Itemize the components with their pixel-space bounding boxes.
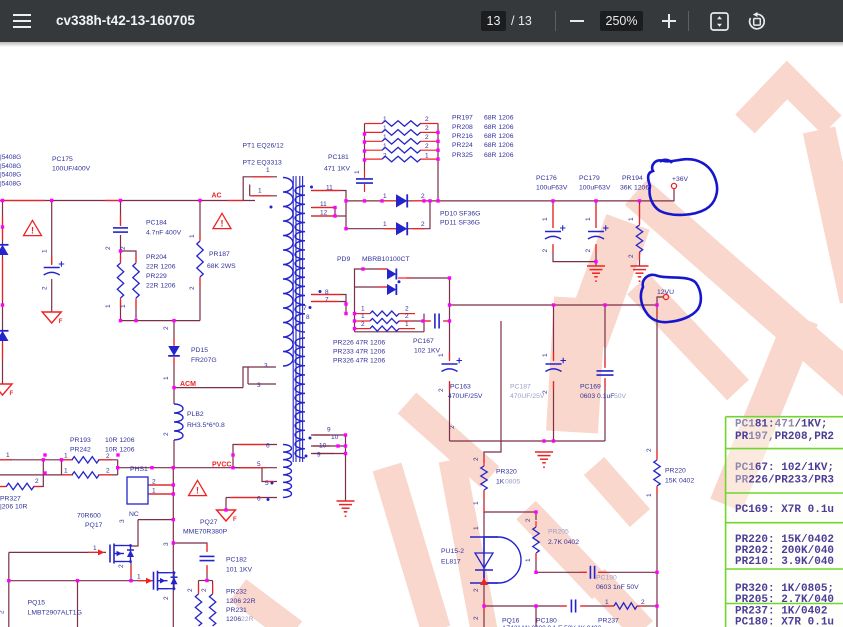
lead PR327 red: [0, 486, 41, 488]
pin number labels: [6, 116, 645, 606]
svg-text:68R 1206: 68R 1206: [484, 152, 514, 159]
wire 12VU rail: [450, 304, 658, 306]
resistor PR205: [533, 527, 539, 553]
svg-text:1: 1: [383, 134, 387, 141]
resistor PR325: [382, 156, 421, 162]
wire right rail 12V: [656, 305, 658, 459]
svg-text:NC: NC: [129, 511, 139, 518]
svg-text:RH3.5*6*0.8: RH3.5*6*0.8: [187, 422, 225, 429]
svg-text:6: 6: [257, 496, 261, 503]
wire trans right upper taps: [311, 191, 346, 229]
svg-text:2: 2: [421, 221, 425, 228]
junction sec dots: [336, 433, 347, 455]
svg-text:PC180: X7R 0.1u: PC180: X7R 0.1u: [735, 617, 834, 627]
diode PD9 lower: [387, 284, 396, 295]
svg-text:PR197,PR208,PR2: PR197,PR208,PR2: [735, 431, 834, 443]
wire PC187 lower: [553, 382, 555, 441]
wire PR205 bottom: [535, 554, 537, 572]
watermark stroke N: [638, 284, 738, 390]
svg-text:F: F: [10, 391, 14, 397]
svg-text:PR205: PR205: [548, 529, 569, 536]
resistor PR233: [370, 318, 399, 323]
wire right rail bottom: [656, 572, 658, 627]
svg-text:3: 3: [257, 382, 261, 389]
lead taps red: [312, 191, 340, 217]
svg-text:1: 1: [525, 558, 532, 562]
svg-text:PR205: 2.7K/040: PR205: 2.7K/040: [735, 594, 834, 606]
svg-text:2: 2: [473, 616, 480, 620]
wire resnet left bus: [364, 124, 366, 171]
wire PR327 up: [34, 460, 43, 487]
lead PR220 red: [656, 310, 658, 494]
watermark stroke A: [387, 467, 436, 627]
warning triangle NC: [189, 480, 207, 495]
svg-text:!: !: [196, 486, 199, 496]
svg-text:68K 2WS: 68K 2WS: [207, 263, 236, 270]
wire main rail lower: [172, 543, 174, 627]
wire tap7: [311, 301, 346, 303]
svg-text:|206 10R: |206 10R: [0, 504, 28, 511]
annotation circle +36V: [648, 159, 717, 215]
svg-text:2: 2: [120, 246, 127, 250]
lead PR204 red: [121, 255, 137, 263]
svg-text:1: 1: [425, 153, 429, 160]
svg-text:PC163: PC163: [450, 384, 471, 391]
svg-text:2: 2: [152, 479, 156, 486]
svg-text:PR204: PR204: [146, 254, 167, 261]
polarity dot tap6: [267, 498, 270, 501]
svg-text:MBRB10100CT: MBRB10100CT: [362, 256, 410, 263]
resistor PR197: [382, 121, 421, 127]
svg-text:PC187: PC187: [510, 384, 531, 391]
zoom level box: [600, 11, 643, 31]
wire PR320 junc down: [483, 512, 485, 537]
svg-text:PR197: PR197: [452, 115, 473, 122]
svg-text:2: 2: [106, 453, 110, 460]
svg-text:1: 1: [646, 493, 653, 497]
svg-text:AC: AC: [212, 193, 222, 200]
lead PHS1 red: [0, 459, 112, 461]
wire tap8: [311, 295, 346, 314]
svg-text:0603 0.1uF: 0603 0.1uF: [580, 393, 614, 400]
svg-text:70R600: 70R600: [77, 513, 101, 520]
wire PR232 top: [198, 581, 200, 594]
transformer primary winding lower: [283, 445, 292, 498]
svg-text:PR187: PR187: [209, 251, 230, 258]
svg-text:PC184: PC184: [146, 220, 167, 227]
lead AC red c: [105, 200, 122, 202]
svg-text:2.7K 0402: 2.7K 0402: [548, 539, 579, 546]
lead PC179 red: [595, 205, 597, 252]
svg-text:1: 1: [383, 143, 387, 150]
svg-text:1: 1: [438, 353, 445, 357]
svg-text:1206 22R: 1206 22R: [226, 598, 256, 605]
svg-text:9: 9: [327, 427, 331, 434]
wire 12VU stub: [657, 297, 663, 305]
svg-text:2: 2: [105, 246, 112, 250]
svg-text:9: 9: [317, 452, 321, 459]
optocoupler PU15-2: [470, 537, 521, 585]
svg-text:PR232: PR232: [226, 589, 247, 596]
svg-text:PR327: PR327: [0, 496, 21, 503]
wire pin1 lower stub: [250, 185, 277, 196]
wire PC190 row b: [599, 571, 657, 573]
wire PR220 lower: [656, 487, 658, 572]
resistor PR231: [209, 594, 215, 626]
capacitor PC187: [546, 358, 567, 372]
wire PC169 lower: [604, 379, 606, 441]
svg-text:MME70R380P: MME70R380P: [183, 529, 228, 536]
wire bottom rail a: [484, 605, 566, 607]
NC connector box: [127, 477, 148, 504]
resistor PR193: [72, 457, 99, 463]
wire resnet right bus: [437, 124, 439, 201]
zoom in button: [662, 14, 676, 28]
wire tap6 lower: [226, 497, 277, 499]
capacitor PC163: [442, 358, 463, 372]
svg-text:PR226 47R 1206: PR226 47R 1206: [333, 340, 385, 347]
svg-text:!: !: [221, 219, 224, 229]
svg-text:2: 2: [542, 390, 549, 394]
svg-text:68R 1206: 68R 1206: [484, 115, 514, 122]
lead PR204 red b: [121, 298, 137, 308]
ground secondary: [337, 501, 355, 517]
lead PR237 red: [607, 605, 645, 607]
lead PD15 red: [173, 338, 175, 365]
svg-text:PQ17: PQ17: [85, 522, 103, 529]
svg-text:3: 3: [264, 363, 268, 370]
svg-text:0805: 0805: [505, 479, 520, 486]
wire opto cath: [483, 572, 485, 606]
svg-text:1: 1: [542, 353, 549, 357]
wire main +B rail: [345, 200, 640, 202]
svg-text:1: 1: [383, 125, 387, 132]
watermark stroke I caret: [745, 80, 832, 125]
watermark stroke R: [819, 130, 843, 300]
wire diode1 in: [355, 269, 388, 332]
svg-text:PC180: PC180: [536, 618, 557, 625]
svg-text:2: 2: [421, 193, 425, 200]
polarity dot sec9: [309, 437, 312, 440]
svg-text:2: 2: [42, 286, 49, 290]
svg-text:1: 1: [42, 249, 49, 253]
wire split right: [121, 251, 137, 262]
wire res box bottom: [355, 331, 425, 333]
svg-text:1: 1: [361, 313, 365, 320]
transistor PQ17: [110, 544, 134, 564]
lead sec out red: [313, 435, 334, 454]
svg-text:1: 1: [585, 217, 592, 221]
wire PQ17 drain row: [138, 519, 173, 521]
resistor PR208: [382, 130, 421, 136]
wire bracket right: [117, 460, 119, 475]
svg-text:2: 2: [449, 425, 456, 429]
lead PC163 red: [449, 352, 451, 390]
wire PC163 lower: [449, 382, 451, 441]
lead PC176 red: [552, 205, 554, 252]
capacitor PC182: [200, 556, 215, 560]
svg-text:1: 1: [473, 526, 480, 530]
wire PC169 vert: [604, 305, 606, 367]
wire tap6 down: [225, 498, 227, 511]
lead PR232 red: [199, 584, 213, 594]
polarity dot tap7: [309, 306, 312, 309]
svg-text:3: 3: [119, 519, 126, 523]
svg-text:2: 2: [438, 388, 445, 392]
svg-text:68R 1206: 68R 1206: [484, 133, 514, 140]
svg-text:0603 1nF 50V: 0603 1nF 50V: [596, 584, 639, 591]
resistor PR216: [382, 139, 421, 145]
svg-text:2: 2: [187, 588, 194, 592]
svg-text:102 1KV: 102 1KV: [414, 348, 441, 355]
lead AC red a: [0, 200, 45, 202]
wire tap11b: [311, 208, 335, 217]
svg-text:PR220: PR220: [665, 468, 686, 475]
svg-text:1: 1: [354, 170, 361, 174]
resistor PR226: [370, 311, 399, 316]
warning triangle mid: [213, 213, 231, 228]
svg-text:1: 1: [383, 193, 387, 200]
svg-text:68R 1206: 68R 1206: [484, 124, 514, 131]
svg-text:2: 2: [641, 599, 645, 606]
wire AC rail: [0, 200, 255, 202]
wire sec out: [311, 435, 346, 501]
lead left rail red: [2, 215, 4, 360]
svg-text:PD11 SF36G: PD11 SF36G: [440, 220, 480, 227]
wire PLB2 lower: [173, 440, 175, 468]
wire PR229 bottom: [135, 300, 137, 321]
watermark stroke K: [238, 590, 294, 627]
watermark stroke C2: [572, 298, 580, 432]
svg-text:+36V: +36V: [672, 176, 689, 183]
resistor PR237: [614, 603, 637, 609]
wire PQ17 source: [130, 562, 131, 581]
ground F PC175: [42, 312, 63, 325]
capacitor PC180: [571, 600, 575, 613]
wire PC187 vert: [553, 305, 555, 360]
capacitor PC181: [356, 179, 373, 183]
svg-text:2: 2: [473, 457, 480, 461]
lead res rows red 2: [355, 320, 413, 322]
svg-text:PD9: PD9: [337, 256, 350, 263]
svg-text:FR207G: FR207G: [191, 357, 217, 364]
svg-text:2: 2: [542, 249, 549, 253]
wire row2 to PC167: [399, 320, 430, 322]
svg-text:1: 1: [163, 376, 170, 380]
svg-text:|5408G: |5408G: [0, 154, 21, 161]
svg-text:10: 10: [331, 434, 339, 441]
wire bracket left: [61, 460, 63, 475]
svg-text:470UF/25V: 470UF/25V: [510, 393, 545, 400]
svg-text:1: 1: [473, 501, 480, 505]
svg-text:PR224: PR224: [452, 142, 473, 149]
svg-text:PD10 SF36G: PD10 SF36G: [440, 211, 480, 218]
svg-text:3: 3: [163, 542, 170, 546]
svg-text:PVCC: PVCC: [212, 462, 231, 469]
svg-text:PR231: PR231: [226, 607, 247, 614]
svg-text:PD15: PD15: [191, 347, 208, 354]
svg-text:PC182: PC182: [226, 557, 247, 564]
wire PHS1 left b: [99, 459, 118, 461]
svg-text:PC190: PC190: [596, 575, 617, 582]
svg-text:470UF/25V: 470UF/25V: [448, 393, 483, 400]
svg-text:1: 1: [405, 321, 409, 328]
svg-text:1: 1: [137, 574, 141, 581]
zoom out button: [570, 20, 584, 22]
svg-text:PHS1: PHS1: [130, 466, 148, 473]
svg-text:PR208: PR208: [452, 124, 473, 131]
gate arrow PQ17: [98, 549, 105, 555]
svg-text:1: 1: [383, 221, 387, 228]
wire PC179 lower: [595, 245, 597, 266]
junction PD9 out: [398, 280, 401, 283]
node +36V: [671, 183, 676, 188]
svg-text:2: 2: [163, 596, 170, 600]
wire PC175 lower: [51, 279, 53, 312]
lead PD11 red: [384, 228, 424, 230]
wire ACM step3: [243, 367, 276, 388]
svg-text:|5408G: |5408G: [0, 163, 21, 170]
wire PR194 lower: [639, 253, 641, 266]
page number input: [481, 11, 506, 31]
svg-text:PT1 EQ26/12: PT1 EQ26/12: [243, 143, 284, 150]
wire opto anode: [483, 553, 485, 557]
svg-text:2: 2: [646, 448, 653, 452]
transformer secondary winding lower: [295, 338, 305, 458]
lead pin1b red: [252, 195, 271, 197]
svg-text:2: 2: [405, 313, 409, 320]
diode left rail lower: [0, 331, 9, 341]
diode left rail upper: [0, 245, 9, 255]
svg-text:PC181: PC181: [328, 154, 349, 161]
svg-text:2: 2: [35, 478, 39, 485]
svg-text:2: 2: [425, 143, 429, 150]
lead opto red: [483, 505, 485, 612]
svg-text:PQ15: PQ15: [28, 600, 46, 607]
svg-text:2: 2: [106, 468, 110, 475]
capacitor PC167: [435, 314, 439, 329]
rotate icon: [747, 12, 767, 31]
table grid: [726, 417, 843, 627]
ground PC179: [587, 266, 605, 282]
label PR231 value: [226, 616, 254, 623]
wire PC184 branch: [120, 201, 122, 226]
svg-text:PR326 47R 1206: PR326 47R 1206: [333, 358, 385, 365]
resistor PR194: [636, 225, 642, 252]
svg-text:PR237: PR237: [598, 618, 619, 625]
capacitor PC176: [545, 225, 566, 239]
wire PC182 down: [206, 566, 208, 581]
svg-text:1: 1: [628, 217, 635, 221]
svg-text:12: 12: [320, 210, 328, 217]
svg-text:2: 2: [405, 306, 409, 313]
watermark stroke C1: [585, 222, 628, 340]
wire res right bus: [423, 314, 425, 332]
svg-text:4.7nF 400V: 4.7nF 400V: [146, 230, 182, 237]
svg-text:101 1KV: 101 1KV: [226, 567, 253, 574]
lead PC187 red: [553, 352, 555, 390]
wire PC176 branch: [552, 201, 554, 228]
svg-text:1: 1: [64, 468, 68, 475]
wire ACM row: [174, 387, 243, 389]
svg-text:68R 1206: 68R 1206: [484, 142, 514, 149]
lead PC169 red: [604, 358, 606, 388]
svg-text:PR210: 3.9K/040: PR210: 3.9K/040: [735, 556, 834, 568]
svg-text:1: 1: [120, 304, 127, 308]
svg-text:8: 8: [325, 289, 329, 296]
table text: [735, 419, 834, 627]
wire +36V stub: [640, 189, 675, 201]
svg-text:1: 1: [152, 488, 156, 495]
wire PVCC step5: [232, 455, 234, 468]
svg-text:1: 1: [383, 116, 387, 123]
watermark stroke G: [526, 510, 602, 590]
svg-text:2: 2: [201, 588, 208, 592]
wire mid box right vert: [484, 321, 501, 463]
wire down to PD15: [173, 321, 175, 345]
lead PC180 red: [560, 605, 587, 607]
wire opto bottom down: [483, 606, 485, 627]
lead PC182 red: [206, 544, 208, 573]
wire PC179 branch: [595, 201, 597, 228]
wire tap5b: [233, 467, 277, 469]
fit to page icon: [710, 12, 729, 31]
diode PD9 upper: [387, 269, 396, 280]
ground F left: [0, 384, 14, 397]
svg-text:|5408G: |5408G: [0, 172, 21, 179]
wire PC175 branch: [51, 201, 53, 265]
svg-text:PT2 EQ3313: PT2 EQ3313: [243, 160, 283, 167]
ground PR194: [631, 266, 649, 282]
svg-text:5: 5: [257, 461, 261, 468]
toolbar: [0, 0, 843, 42]
svg-text:PC179: PC179: [579, 175, 600, 182]
wire PR187 bottom: [199, 278, 201, 321]
capacitor PC190: [590, 566, 594, 579]
lead PC190 red: [580, 571, 605, 573]
svg-text:22R: 22R: [241, 616, 254, 623]
svg-text:2: 2: [0, 610, 6, 614]
lead AC red b: [228, 200, 243, 202]
lead resnet red: [365, 124, 439, 160]
svg-text:PLB2: PLB2: [187, 411, 204, 418]
watermark stroke B: [452, 460, 484, 627]
svg-text:PQ16: PQ16: [502, 618, 520, 625]
svg-text:7: 7: [303, 305, 307, 312]
svg-text:11: 11: [326, 185, 333, 192]
svg-text:6: 6: [266, 443, 270, 450]
label PR320 value: [496, 479, 520, 486]
wire PHS1 row2 a: [0, 474, 72, 476]
wire PLB2 upper: [173, 388, 175, 404]
wire PC190 row a: [536, 571, 586, 573]
wire PR194 branch: [639, 201, 641, 224]
svg-text:PR193: PR193: [70, 437, 91, 444]
svg-text:2: 2: [425, 116, 429, 123]
transformer primary winding upper: [283, 178, 293, 367]
watermark stroke J: [726, 318, 802, 505]
svg-text:15K 0402: 15K 0402: [665, 478, 694, 485]
separator 2: [688, 11, 689, 31]
wire NC pin1: [148, 493, 173, 495]
svg-text:1: 1: [361, 306, 365, 313]
wire PR231 top: [212, 581, 214, 594]
wire PC167 out: [444, 320, 450, 322]
svg-text:1206: 1206: [226, 616, 241, 623]
polarity dot secondary: [310, 186, 313, 189]
svg-text:PQ27: PQ27: [200, 519, 218, 526]
svg-text:7: 7: [325, 297, 329, 304]
